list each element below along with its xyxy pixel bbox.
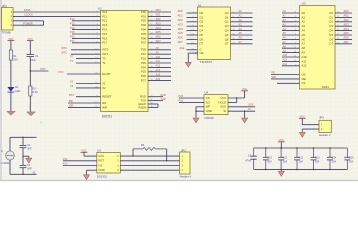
ground (EEPROM left) bbox=[193, 116, 199, 123]
wire MCU RESET bbox=[76, 96, 101, 98]
ground (LED) bbox=[7, 111, 16, 115]
svg-text:17: 17 bbox=[337, 34, 339, 36]
wire AD1 (RAM) bbox=[335, 16, 352, 18]
wire DS1302 to header pin 3 bbox=[120, 165, 179, 167]
capacitor C14 bbox=[327, 148, 333, 170]
svg-text:P15: P15 bbox=[102, 32, 107, 36]
wire EEPROM WP bbox=[196, 106, 204, 108]
capacitor C2 bbox=[20, 145, 27, 147]
svg-text:A14: A14 bbox=[156, 72, 161, 76]
junction EEPROM SI bbox=[244, 111, 245, 112]
svg-text:74LS373: 74LS373 bbox=[200, 60, 213, 64]
wire DS1302 to header pin 1 bbox=[120, 155, 179, 157]
svg-text:C9: C9 bbox=[248, 153, 252, 157]
junction cap C14 top bbox=[329, 147, 330, 148]
svg-text:1: 1 bbox=[192, 52, 193, 54]
svg-text:47uF: 47uF bbox=[245, 158, 251, 162]
ground (header 2) bbox=[299, 131, 305, 138]
svg-text:5: 5 bbox=[295, 34, 296, 36]
svg-text:16: 16 bbox=[95, 106, 97, 108]
svg-text:P16: P16 bbox=[70, 35, 75, 39]
svg-text:C14: C14 bbox=[332, 157, 337, 160]
wire WR to RAM bbox=[271, 78, 300, 80]
svg-text:A2: A2 bbox=[239, 18, 243, 22]
svg-text:8: 8 bbox=[192, 25, 193, 27]
svg-text:U4: U4 bbox=[205, 91, 209, 95]
svg-text:A10: A10 bbox=[283, 53, 288, 57]
svg-text:12: 12 bbox=[233, 29, 235, 31]
svg-text:AD2: AD2 bbox=[344, 18, 350, 22]
svg-text:16: 16 bbox=[233, 38, 235, 40]
svg-text:24: 24 bbox=[294, 51, 296, 53]
power VCC (cap bank) bbox=[278, 139, 285, 142]
svg-text:RD: RD bbox=[69, 99, 73, 103]
svg-text:INT0: INT0 bbox=[61, 46, 67, 50]
wire VCC stem (header 2) bbox=[301, 118, 303, 124]
wire A3 (latch) bbox=[231, 25, 253, 27]
wire AD2 (RAM) bbox=[335, 21, 352, 23]
svg-text:D5: D5 bbox=[329, 33, 333, 37]
wire to mid ground bbox=[23, 155, 29, 157]
svg-text:9: 9 bbox=[96, 95, 97, 97]
svg-text:AD1: AD1 bbox=[156, 13, 162, 17]
svg-text:GND: GND bbox=[98, 168, 104, 172]
svg-text:AD4: AD4 bbox=[178, 27, 184, 31]
junction cap C12 bottom bbox=[296, 169, 297, 170]
svg-text:D5: D5 bbox=[200, 33, 204, 37]
junction R6 right bbox=[166, 160, 167, 161]
wire VCC to DS1302 bbox=[84, 155, 97, 157]
wire header2 pin1 bbox=[302, 124, 319, 126]
junction VCC cap bank bbox=[281, 147, 282, 148]
wire A0 (RAM) bbox=[282, 12, 300, 14]
header JP3 body bbox=[319, 120, 331, 132]
svg-text:10: 10 bbox=[294, 12, 296, 14]
wire EEPROM VCC-HOLD tie bbox=[236, 98, 238, 102]
svg-text:AD3: AD3 bbox=[178, 22, 184, 26]
wire A1 (RAM) bbox=[282, 16, 300, 18]
power VCC (C1 branch) bbox=[27, 38, 34, 41]
ground (EEPROM right) bbox=[242, 116, 248, 123]
svg-text:P13: P13 bbox=[102, 23, 107, 27]
svg-text:7: 7 bbox=[192, 20, 193, 22]
svg-text:X25045: X25045 bbox=[204, 116, 214, 120]
wire DS1302 to header pin 2 bbox=[120, 160, 179, 162]
svg-text:18: 18 bbox=[191, 42, 193, 44]
svg-text:D0: D0 bbox=[200, 11, 204, 15]
svg-text:CLOCK: CLOCK bbox=[24, 13, 33, 17]
svg-text:2: 2 bbox=[96, 15, 97, 17]
wire RXD bbox=[148, 96, 163, 98]
wire EEPROM SCK bbox=[228, 106, 255, 108]
svg-text:89C51: 89C51 bbox=[102, 114, 112, 118]
svg-text:RST: RST bbox=[41, 67, 47, 71]
svg-text:P14: P14 bbox=[70, 26, 75, 30]
svg-text:25: 25 bbox=[294, 47, 296, 49]
wire CLOCK bbox=[13, 15, 101, 17]
wire AD4 (MCU) bbox=[148, 29, 171, 31]
svg-text:104: 104 bbox=[315, 160, 320, 163]
wire JP1 pin4 POWER bbox=[13, 24, 44, 26]
svg-text:U3: U3 bbox=[302, 1, 306, 5]
ground (cap bank) bbox=[278, 170, 284, 177]
svg-text:AD3: AD3 bbox=[156, 21, 162, 25]
sheet background bbox=[0, 0, 358, 182]
svg-text:31: 31 bbox=[95, 73, 97, 75]
svg-text:A7: A7 bbox=[239, 40, 243, 44]
wire A11 (MCU) bbox=[148, 62, 171, 64]
svg-text:D7: D7 bbox=[200, 42, 204, 46]
svg-text:TXD: TXD bbox=[161, 97, 166, 101]
svg-text:R6: R6 bbox=[141, 143, 145, 147]
svg-text:C1: C1 bbox=[35, 54, 39, 58]
wire AD1 (MCU) bbox=[148, 15, 171, 17]
svg-text:9: 9 bbox=[295, 16, 296, 18]
capacitor C3 bbox=[20, 165, 27, 167]
svg-text:WR: WR bbox=[69, 104, 73, 108]
svg-text:AD5: AD5 bbox=[156, 30, 162, 34]
svg-text:AD7: AD7 bbox=[178, 40, 184, 44]
wire latch OE bbox=[188, 52, 195, 54]
svg-text:28: 28 bbox=[151, 79, 153, 81]
wire ALE stub bbox=[148, 103, 158, 105]
wire AD7 (RAM) bbox=[335, 43, 352, 45]
svg-text:A8: A8 bbox=[302, 46, 306, 50]
wire AD0 (latch) bbox=[187, 12, 198, 14]
svg-text:RD: RD bbox=[272, 71, 276, 75]
wire A4 (latch) bbox=[231, 30, 253, 32]
svg-text:23: 23 bbox=[151, 57, 153, 59]
resistor R6 bbox=[133, 147, 167, 150]
svg-text:SCK: SCK bbox=[220, 105, 226, 109]
junction EEPROM VCC bbox=[236, 97, 237, 98]
wire A2 (RAM) bbox=[282, 21, 300, 23]
svg-text:21: 21 bbox=[294, 56, 296, 58]
ground (latch OE) bbox=[185, 61, 191, 68]
wire PSEN stub bbox=[148, 106, 158, 108]
power VCC (EEPROM) bbox=[241, 88, 248, 91]
svg-text:POWER: POWER bbox=[23, 22, 33, 26]
svg-text:D3: D3 bbox=[329, 24, 333, 28]
svg-text:13: 13 bbox=[337, 20, 339, 22]
svg-text:P25: P25 bbox=[141, 70, 146, 74]
wire P1.5 bbox=[72, 33, 101, 35]
svg-text:A1: A1 bbox=[239, 14, 243, 18]
svg-text:104: 104 bbox=[267, 160, 272, 163]
svg-text:6: 6 bbox=[295, 29, 296, 31]
wire A7 (latch) bbox=[231, 43, 253, 45]
svg-text:AD6: AD6 bbox=[156, 35, 162, 39]
svg-text:P13: P13 bbox=[70, 21, 75, 25]
wire R6 left leg bbox=[132, 149, 134, 156]
svg-text:RD: RD bbox=[102, 101, 106, 105]
wire A10 (RAM) bbox=[282, 56, 300, 58]
wire RST bbox=[30, 70, 48, 72]
svg-text:AD1: AD1 bbox=[344, 14, 350, 18]
wire A0 (latch) bbox=[231, 12, 253, 14]
wire LED to ground bbox=[10, 92, 12, 111]
svg-text:29: 29 bbox=[151, 106, 153, 108]
latch U1 body bbox=[198, 7, 231, 60]
svg-text:A6: A6 bbox=[302, 37, 306, 41]
wire AD3 (MCU) bbox=[148, 24, 171, 26]
svg-text:T0: T0 bbox=[102, 57, 106, 61]
svg-text:4: 4 bbox=[295, 38, 296, 40]
svg-text:P27: P27 bbox=[141, 79, 146, 83]
svg-text:HOLD: HOLD bbox=[218, 100, 226, 104]
wire AD5 (latch) bbox=[187, 34, 198, 36]
svg-text:R2: R2 bbox=[33, 86, 37, 90]
svg-text:7: 7 bbox=[295, 25, 296, 27]
svg-text:LED: LED bbox=[15, 89, 20, 93]
wire R6 right leg bbox=[166, 149, 168, 161]
svg-text:18: 18 bbox=[337, 38, 339, 40]
svg-text:X2: X2 bbox=[70, 84, 74, 88]
wire EEPROM VCC bbox=[228, 97, 245, 99]
wire AD6 (RAM) bbox=[335, 38, 352, 40]
svg-text:P05: P05 bbox=[141, 32, 146, 36]
svg-text:A10: A10 bbox=[302, 55, 307, 59]
svg-text:D6: D6 bbox=[200, 37, 204, 41]
svg-text:P12: P12 bbox=[63, 157, 68, 161]
svg-text:RST: RST bbox=[69, 93, 75, 97]
svg-text:A5: A5 bbox=[239, 31, 243, 35]
wire P1.4 bbox=[72, 29, 101, 31]
svg-text:D7: D7 bbox=[329, 42, 333, 46]
svg-text:A2: A2 bbox=[283, 18, 287, 22]
svg-text:A0: A0 bbox=[283, 9, 287, 13]
svg-text:P23: P23 bbox=[141, 61, 146, 65]
junction cap C11 top bbox=[280, 147, 281, 148]
svg-text:Q4: Q4 bbox=[225, 29, 229, 33]
svg-text:AD0: AD0 bbox=[178, 9, 184, 13]
wire A7 (RAM) bbox=[282, 43, 300, 45]
svg-text:P16: P16 bbox=[102, 36, 107, 40]
svg-text:PSEN: PSEN bbox=[138, 105, 146, 109]
svg-text:5: 5 bbox=[233, 16, 234, 18]
svg-text:AD2: AD2 bbox=[156, 17, 162, 21]
svg-text:19: 19 bbox=[95, 82, 97, 84]
wire cap bank bottom rail bbox=[254, 169, 348, 171]
svg-text:13: 13 bbox=[191, 29, 193, 31]
wire DATA bbox=[13, 11, 101, 13]
svg-text:C13: C13 bbox=[315, 157, 320, 160]
svg-text:A4: A4 bbox=[302, 29, 306, 33]
svg-text:19: 19 bbox=[233, 42, 235, 44]
svg-text:AD5: AD5 bbox=[178, 31, 184, 35]
svg-text:P04: P04 bbox=[141, 28, 146, 32]
wire AD7 (latch) bbox=[187, 43, 198, 45]
junction cap C13 top bbox=[313, 147, 314, 148]
svg-text:AD6: AD6 bbox=[344, 36, 350, 40]
wire AD5 (MCU) bbox=[148, 33, 171, 35]
junction cap C13 bottom bbox=[313, 169, 314, 170]
junction EEPROM GND bbox=[195, 111, 196, 112]
svg-text:16: 16 bbox=[337, 29, 339, 31]
svg-text:AD1: AD1 bbox=[178, 14, 184, 18]
svg-text:D6: D6 bbox=[329, 37, 333, 41]
svg-text:A0: A0 bbox=[239, 9, 243, 13]
wire JP1 pin3-pin4 jog bbox=[43, 21, 45, 25]
wire EEPROM CS bbox=[179, 97, 204, 99]
wire A14 (MCU) bbox=[148, 75, 171, 77]
svg-text:C12: C12 bbox=[299, 157, 304, 160]
svg-text:P24: P24 bbox=[141, 65, 146, 69]
svg-text:17: 17 bbox=[191, 38, 193, 40]
svg-text:D3: D3 bbox=[200, 24, 204, 28]
svg-text:INT1: INT1 bbox=[61, 50, 67, 54]
svg-text:WR: WR bbox=[272, 75, 276, 79]
svg-text:P14: P14 bbox=[102, 28, 107, 32]
wire VCC stem (EEPROM) bbox=[244, 91, 246, 98]
svg-text:P12: P12 bbox=[70, 17, 75, 21]
wire A10 (MCU) bbox=[148, 58, 171, 60]
svg-text:CS: CS bbox=[206, 96, 210, 100]
wire AD5 (RAM) bbox=[335, 34, 352, 36]
wire AD3 (RAM) bbox=[335, 25, 352, 27]
svg-text:P03: P03 bbox=[141, 23, 146, 27]
svg-text:12: 12 bbox=[95, 48, 97, 50]
wire EEPROM SI bbox=[228, 110, 255, 112]
svg-text:A12: A12 bbox=[283, 62, 288, 66]
svg-text:A4: A4 bbox=[283, 27, 287, 31]
svg-text:2: 2 bbox=[295, 64, 296, 66]
svg-text:P15: P15 bbox=[179, 94, 184, 98]
wire C1 to junction bbox=[29, 57, 31, 86]
svg-text:21: 21 bbox=[151, 48, 153, 50]
wire C3 lower bbox=[22, 168, 24, 175]
DS1302 U5 body bbox=[97, 153, 121, 174]
wire EEPROM SO bbox=[179, 101, 204, 103]
svg-text:P11: P11 bbox=[102, 14, 107, 18]
wire ALE-PSEN jog bbox=[157, 104, 159, 107]
wire A8 (RAM) bbox=[282, 47, 300, 49]
wire A9 (RAM) bbox=[282, 52, 300, 54]
wire VCC to C1 bbox=[29, 41, 31, 55]
wire cap bank top rail bbox=[254, 147, 348, 149]
wire DS1302 GND bbox=[87, 169, 97, 171]
wire R2 to ground bbox=[29, 96, 31, 112]
latch OE bubble bbox=[196, 52, 198, 54]
svg-text:10: 10 bbox=[151, 95, 153, 97]
wire A2 (latch) bbox=[231, 21, 253, 23]
wire AD3 (latch) bbox=[187, 25, 198, 27]
svg-text:D4: D4 bbox=[200, 29, 204, 33]
svg-text:SI: SI bbox=[224, 109, 227, 113]
svg-text:8.2K: 8.2K bbox=[33, 90, 39, 94]
wire DS1302 I/O bbox=[63, 165, 97, 167]
svg-text:4: 4 bbox=[192, 16, 193, 18]
svg-text:12: 12 bbox=[337, 16, 339, 18]
junction R6 left bbox=[132, 155, 133, 156]
svg-text:X1: X1 bbox=[102, 81, 106, 85]
svg-text:D2: D2 bbox=[200, 20, 204, 24]
svg-text:A11: A11 bbox=[156, 59, 161, 63]
wire DS1302 GND down bbox=[86, 170, 88, 175]
svg-text:SI: SI bbox=[248, 107, 251, 111]
wire C2 to junction bbox=[22, 148, 24, 166]
svg-text:U5: U5 bbox=[97, 148, 101, 152]
svg-text:11: 11 bbox=[151, 99, 153, 101]
svg-text:A5: A5 bbox=[283, 31, 287, 35]
svg-text:104: 104 bbox=[349, 160, 354, 163]
wire AD2 (MCU) bbox=[148, 20, 171, 22]
svg-text:104: 104 bbox=[299, 160, 304, 163]
svg-text:A15: A15 bbox=[156, 77, 161, 81]
sheet border left bbox=[0, 0, 2, 182]
svg-text:15: 15 bbox=[95, 62, 97, 64]
wire VCC stem (DS1302) bbox=[83, 152, 85, 156]
svg-text:11: 11 bbox=[192, 48, 194, 50]
wire MCU WR bbox=[68, 106, 101, 108]
wire VCC stem (cap bank) bbox=[280, 142, 282, 148]
wire MCU RD bbox=[68, 102, 101, 104]
wire P1.3 bbox=[72, 24, 101, 26]
wire AD0 (MCU) bbox=[148, 11, 171, 13]
wire MCU EA/VP bbox=[67, 73, 101, 75]
svg-text:D1: D1 bbox=[329, 15, 333, 19]
svg-text:D0: D0 bbox=[329, 11, 333, 15]
power VCC (R1 branch) bbox=[8, 38, 15, 41]
wire AD4 (RAM) bbox=[335, 30, 352, 32]
svg-text:AD4: AD4 bbox=[156, 26, 162, 30]
svg-text:RXD: RXD bbox=[161, 93, 167, 97]
svg-text:INT1: INT1 bbox=[102, 52, 109, 56]
svg-text:P10: P10 bbox=[102, 10, 107, 14]
svg-text:34: 34 bbox=[151, 33, 153, 35]
ground (R2) bbox=[27, 112, 36, 116]
junction RST bbox=[30, 70, 31, 71]
svg-text:D1: D1 bbox=[200, 15, 204, 19]
svg-text:P26: P26 bbox=[141, 74, 146, 78]
svg-text:AD6: AD6 bbox=[178, 36, 184, 40]
wire A13 (MCU) bbox=[148, 71, 171, 73]
svg-text:P00: P00 bbox=[141, 10, 146, 14]
sheet border bottom bbox=[0, 179, 358, 181]
svg-text:P13: P13 bbox=[63, 162, 68, 166]
svg-text:JP3: JP3 bbox=[319, 116, 324, 120]
wire JP1 pin3 bbox=[13, 20, 44, 22]
connector JP1 body bbox=[2, 8, 14, 31]
wire header2 gnd down bbox=[301, 129, 303, 133]
svg-text:A9: A9 bbox=[302, 51, 306, 55]
wire EEPROM GND bbox=[196, 110, 204, 112]
svg-text:TFJMB: TFJMB bbox=[2, 30, 11, 34]
svg-text:Header 2: Header 2 bbox=[319, 133, 331, 137]
ground (DS1302) bbox=[84, 173, 90, 180]
svg-text:6: 6 bbox=[233, 20, 234, 22]
svg-text:WR: WR bbox=[102, 105, 107, 109]
wire AD2 (latch) bbox=[187, 21, 198, 23]
svg-text:D2: D2 bbox=[329, 20, 333, 24]
svg-text:23: 23 bbox=[294, 60, 296, 62]
wire MCU INT0 bbox=[71, 49, 101, 51]
resistor R2 bbox=[29, 86, 32, 96]
svg-text:OE: OE bbox=[200, 51, 204, 55]
svg-text:AD3: AD3 bbox=[344, 22, 350, 26]
capacitor C15 bbox=[344, 148, 350, 170]
svg-text:AD5: AD5 bbox=[344, 31, 350, 35]
svg-text:3: 3 bbox=[295, 42, 296, 44]
svg-text:WE: WE bbox=[302, 77, 307, 81]
wire latch OE down bbox=[187, 53, 189, 62]
wire RD to RAM bbox=[271, 74, 300, 76]
capacitor C1 bbox=[27, 54, 35, 56]
svg-text:1: 1 bbox=[96, 11, 97, 13]
wire R1 to LED bbox=[10, 60, 12, 87]
svg-text:T1: T1 bbox=[102, 61, 106, 65]
svg-text:9: 9 bbox=[233, 25, 234, 27]
